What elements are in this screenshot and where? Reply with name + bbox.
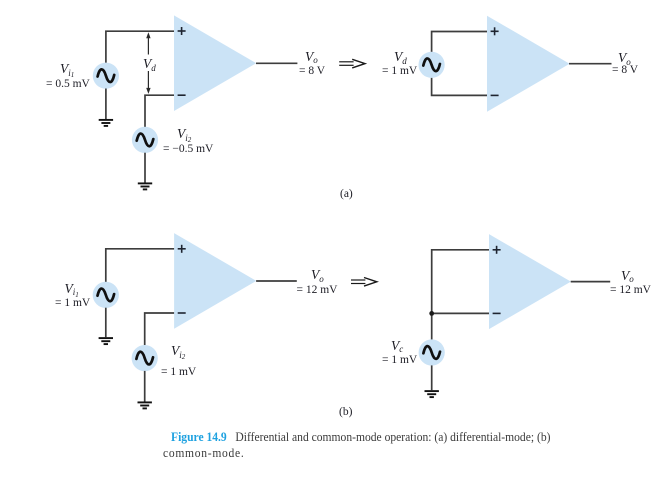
label Vi1 (b) — [65, 282, 79, 296]
figure caption — [163, 429, 661, 460]
value Vi2 (b) — [161, 367, 196, 379]
subfigure label (a) — [340, 189, 353, 201]
wire: Vc to + input — [432, 250, 489, 340]
wire: output Vo right — [569, 63, 612, 65]
wire: Vi1 to ground (b) — [105, 308, 107, 338]
op-amp U2 minus pin — [491, 94, 499, 96]
source Vi2 — [132, 127, 158, 153]
op-amp U4 — [489, 234, 571, 329]
wire: Vi1 to + input (b) — [106, 249, 174, 282]
wire: Vi2 to ground — [144, 153, 146, 183]
value Vi2 (a) — [163, 144, 213, 156]
Vd measurement arrow — [146, 32, 150, 94]
value Vo (b right) — [610, 285, 651, 297]
label Vc (b right) — [391, 339, 403, 353]
implication arrow top — [339, 59, 365, 68]
value Vi1 (b) — [55, 298, 90, 310]
op-amp U4 plus pin — [493, 246, 501, 254]
ground G5 — [425, 391, 439, 397]
label Vi2 (b) — [171, 344, 185, 358]
ground G4 — [138, 402, 152, 408]
value Vo (b left) — [297, 285, 338, 297]
source Vi2 (b) — [132, 345, 158, 371]
subfigure label (b) — [339, 407, 352, 419]
source Vi1 — [93, 63, 119, 89]
label Vo (b left) — [311, 268, 324, 282]
label Vi1 (a) — [60, 62, 74, 76]
wire: Vi2 to ground (b) — [144, 371, 146, 402]
value Vc (b right) — [382, 355, 417, 367]
label Vi2 (a) — [177, 127, 191, 141]
wire: output Vo (b) — [256, 280, 297, 282]
wire: output Vo (b right) — [571, 281, 611, 283]
value Vi1 (a) — [46, 79, 90, 91]
source Vc — [419, 339, 445, 365]
value Vo (a left) — [299, 66, 325, 78]
wire: Vi1 to ground — [105, 89, 107, 120]
value Vo (a right) — [612, 65, 638, 77]
implication arrow bottom — [351, 278, 377, 287]
ground G3 — [99, 338, 113, 344]
label Vd (a) — [142, 57, 157, 71]
wire: Vi2 to - input — [145, 95, 174, 127]
op-amp U2 plus pin — [491, 27, 499, 35]
label Vd source (a right) — [394, 50, 407, 64]
op-amp U4 minus pin — [493, 312, 501, 314]
op-amp U3 minus pin — [178, 312, 186, 314]
source Vd — [419, 52, 445, 78]
wire: node to - input — [432, 312, 489, 314]
wire: Vi1 to + input — [106, 31, 174, 63]
ground G2 — [138, 183, 152, 189]
wire: Vd source to - input — [432, 78, 487, 96]
wire: Vi2 to - input (b) — [145, 313, 174, 345]
label Vo (a right) — [618, 51, 631, 65]
source Vi1 (b) — [93, 282, 119, 308]
ground G1 — [99, 120, 113, 126]
op-amp U3 plus pin — [178, 245, 186, 253]
op-amp U3 — [174, 233, 256, 329]
op-amp U2 — [487, 16, 570, 112]
label Vo (a left) — [305, 50, 318, 64]
junction node — [429, 311, 434, 316]
op-amp U1 plus pin — [178, 27, 186, 35]
op-amp U1 minus pin — [178, 94, 186, 96]
label Vo (b right) — [621, 269, 634, 283]
wire: Vd source to + input — [432, 32, 487, 53]
wire: Vc to ground — [431, 365, 433, 390]
value Vd source (a right) — [382, 66, 417, 78]
wire: output Vo — [256, 62, 297, 64]
op-amp U1 — [174, 15, 256, 111]
